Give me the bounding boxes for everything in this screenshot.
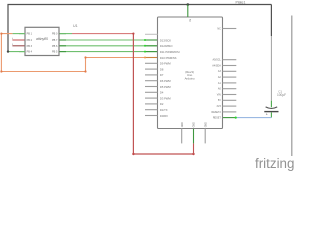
svg-text:D2: D2 bbox=[160, 102, 164, 106]
svg-text:RESET2: RESET2 bbox=[211, 111, 221, 114]
svg-text:3V3: 3V3 bbox=[217, 105, 222, 108]
svg-text:D9 PWM: D9 PWM bbox=[160, 62, 172, 66]
svg-text:A5/SCL: A5/SCL bbox=[213, 59, 222, 62]
svg-text:PB 0: PB 0 bbox=[52, 33, 58, 36]
svg-text:GND: GND bbox=[182, 122, 184, 127]
svg-text:VIN: VIN bbox=[217, 93, 221, 96]
svg-text:+: + bbox=[266, 113, 268, 117]
svg-text:PB 6: PB 6 bbox=[52, 45, 58, 48]
svg-text:5V: 5V bbox=[188, 19, 190, 22]
svg-text:D10 PWM/SS: D10 PWM/SS bbox=[160, 56, 177, 60]
svg-text:A4/SDA: A4/SDA bbox=[212, 64, 221, 67]
svg-text:RESET: RESET bbox=[213, 117, 222, 120]
svg-text:PB 2: PB 2 bbox=[27, 39, 33, 42]
svg-text:Plate1: Plate1 bbox=[236, 1, 246, 5]
svg-text:D8: D8 bbox=[160, 67, 164, 71]
svg-text:D3 PWM: D3 PWM bbox=[160, 96, 172, 100]
svg-text:D1/TX: D1/TX bbox=[160, 108, 168, 112]
svg-text:D6 PWM: D6 PWM bbox=[160, 79, 172, 83]
svg-text:PB 7: PB 7 bbox=[52, 39, 58, 42]
svg-text:GND: GND bbox=[205, 122, 207, 127]
svg-text:D5 PWM: D5 PWM bbox=[160, 85, 172, 89]
svg-text:attiny85: attiny85 bbox=[36, 37, 48, 41]
svg-text:PB 4: PB 4 bbox=[27, 51, 33, 54]
svg-text:Arduino: Arduino bbox=[185, 77, 195, 81]
svg-text:100µF: 100µF bbox=[277, 93, 286, 97]
svg-text:NC: NC bbox=[217, 27, 221, 30]
svg-text:D7: D7 bbox=[160, 73, 164, 77]
svg-text:GND: GND bbox=[194, 122, 196, 127]
svg-text:D13/SCK: D13/SCK bbox=[160, 38, 171, 42]
svg-text:PB 1: PB 1 bbox=[27, 33, 33, 36]
svg-text:D12/MISO: D12/MISO bbox=[160, 44, 173, 48]
svg-text:PB 3: PB 3 bbox=[27, 45, 33, 48]
svg-text:PB 5: PB 5 bbox=[52, 51, 58, 54]
svg-text:5V: 5V bbox=[218, 99, 221, 102]
svg-text:fritzing: fritzing bbox=[255, 156, 294, 171]
svg-text:D0/RX: D0/RX bbox=[160, 114, 168, 118]
svg-text:U1: U1 bbox=[73, 24, 78, 28]
svg-text:D4: D4 bbox=[160, 91, 164, 95]
svg-text:D11 PWM/MOSI: D11 PWM/MOSI bbox=[160, 50, 180, 54]
